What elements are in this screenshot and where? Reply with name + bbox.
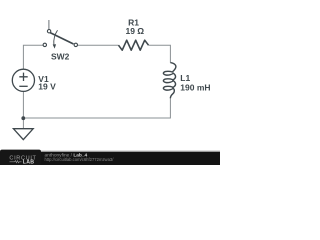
wire: SW2 right terminal to R1: [78, 44, 119, 46]
svg-text:SW2: SW2: [51, 51, 70, 61]
wire: V1 bottom lead down to node: [22, 91, 24, 118]
wire: V1 top lead up and right to SW2 left terminal: [23, 45, 43, 70]
svg-text:190 mH: 190 mH: [180, 82, 210, 92]
switch motion arc: [54, 30, 58, 45]
switch arrowhead: [53, 44, 56, 48]
inductor L1: [163, 63, 175, 99]
svg-text:LAB: LAB: [23, 159, 35, 165]
watermark logo block: [0, 150, 41, 165]
switch top stub: [48, 20, 50, 29]
wire: bottom run from node to L1 bottom: [23, 98, 170, 118]
svg-text:19 V: 19 V: [38, 82, 56, 92]
wire: node to ground: [22, 118, 24, 129]
CircuitLab logo: [9, 156, 36, 166]
switch lever: [50, 33, 73, 44]
voltage source V1: [12, 69, 34, 91]
switch SW2: [43, 20, 77, 49]
ground: [13, 129, 33, 140]
resistor R1: [119, 40, 149, 50]
watermark bar: [0, 152, 220, 165]
svg-text:19 Ω: 19 Ω: [125, 26, 144, 36]
node junction dot: [21, 116, 25, 120]
switch terminal left: [43, 43, 46, 46]
wire: R1 to top-right corner down to L1: [149, 45, 171, 63]
switch terminal top: [47, 30, 50, 33]
switch terminal right: [74, 43, 77, 46]
svg-text:http://circuitlab.com/c6hf2772: http://circuitlab.com/c6hf2772mzwa3/: [45, 157, 115, 162]
